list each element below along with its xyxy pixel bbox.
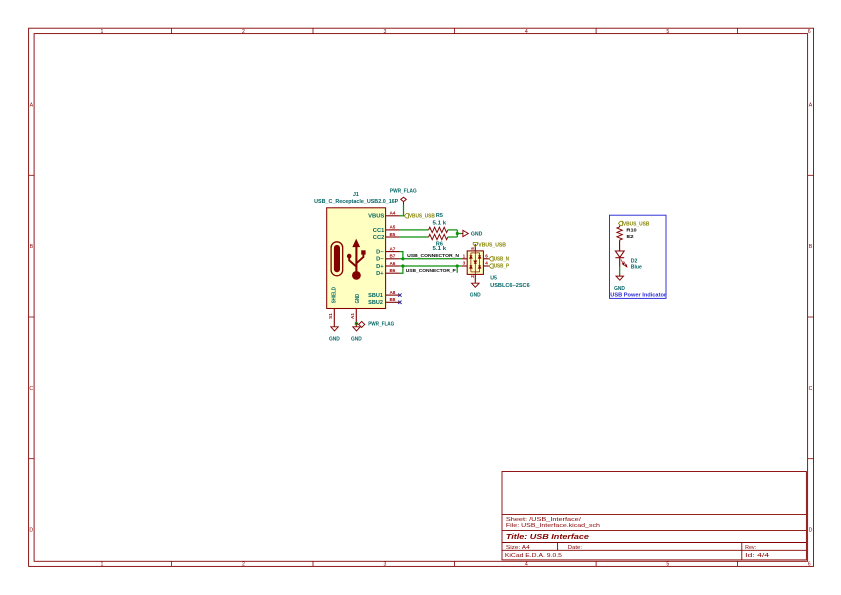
J1 pin B6 stub (386, 272, 400, 274)
svg-text:6: 6 (808, 29, 811, 35)
frame column ticks top (172, 28, 738, 33)
svg-text:2: 2 (470, 275, 475, 278)
svg-text:B7: B7 (389, 254, 395, 259)
svg-text:1: 1 (101, 29, 104, 35)
svg-text:B6: B6 (389, 268, 395, 273)
svg-text:1: 1 (463, 253, 466, 258)
svg-text:2: 2 (242, 29, 245, 35)
U5 pin 4 (483, 265, 489, 267)
J1 pin S1 stub (shield, vertical) (333, 309, 335, 327)
title block (502, 472, 806, 560)
J1 pin A1 stub (gnd, vertical) (355, 309, 357, 327)
ground symbol under U5 (474, 282, 476, 284)
svg-text:VBUS_USB: VBUS_USB (623, 221, 650, 227)
wire CC1 to R5 (400, 229, 429, 231)
wire USB_CONNECTOR_P (400, 265, 462, 267)
svg-text:C: C (29, 386, 33, 392)
svg-text:3: 3 (463, 261, 466, 266)
U5 pin 3 (462, 265, 468, 267)
LED D2 (615, 251, 624, 257)
U5 pin 2 (bottom) (474, 274, 476, 281)
hierarchical label VBUS_USB at J1 (404, 214, 408, 218)
svg-text:VBUS_USB: VBUS_USB (409, 214, 435, 220)
svg-text:VBUS: VBUS (368, 214, 385, 220)
resistor R6 (429, 234, 448, 239)
no-connect X on SBU2 (398, 301, 401, 304)
frame column numbers bottom (101, 562, 811, 568)
svg-text:U5: U5 (490, 276, 497, 282)
frame column numbers top (101, 29, 811, 35)
hierarchical label USB_P (489, 264, 493, 268)
ground symbol in indicator (619, 275, 621, 277)
wire label to R10 (619, 226, 621, 227)
J1 pin B7 stub (386, 258, 400, 260)
USB power indicator group box (610, 215, 667, 298)
svg-text:D: D (809, 528, 813, 534)
wire D+ B6 rise (400, 266, 403, 273)
svg-text:1: 1 (101, 562, 104, 568)
svg-text:D: D (29, 528, 33, 534)
wire CC2 to R6 (400, 236, 429, 238)
svg-text:SBU1: SBU1 (368, 293, 383, 299)
svg-text:D−: D− (376, 257, 383, 263)
J1 pin A8 stub (386, 294, 400, 296)
svg-text:CC1: CC1 (373, 228, 385, 234)
svg-text:D2: D2 (631, 258, 638, 264)
svg-text:SBU2: SBU2 (368, 300, 383, 306)
connector J1 body (327, 208, 386, 309)
svg-text:A1: A1 (350, 313, 355, 319)
svg-text:GND: GND (351, 337, 362, 343)
svg-text:USB_CONNECTOR_N: USB_CONNECTOR_N (407, 253, 459, 259)
svg-text:USB_N: USB_N (494, 257, 510, 263)
svg-text:USB_P: USB_P (494, 264, 510, 270)
svg-text:6: 6 (485, 253, 488, 258)
junction D+ (401, 264, 404, 267)
U5 internal diode network (470, 251, 481, 275)
svg-text:5.1 k: 5.1 k (433, 246, 447, 252)
svg-text:4: 4 (525, 562, 528, 568)
frame row letters left (29, 102, 33, 533)
svg-text:A8: A8 (389, 290, 395, 295)
svg-text:GND: GND (470, 293, 481, 299)
svg-text:D+: D+ (376, 271, 383, 277)
J1 usb-c receptacle glyph inner (334, 245, 340, 272)
hierarchical label VBUS_USB in indicator (618, 221, 622, 225)
svg-text:2: 2 (242, 562, 245, 568)
hierarchical label USB_N (489, 257, 493, 261)
svg-text:USB_C_Receptacle_USB2.0_16P: USB_C_Receptacle_USB2.0_16P (314, 199, 399, 205)
wire junction to GND symbol (457, 233, 461, 235)
svg-text:Id: 4/4: Id: 4/4 (745, 553, 769, 559)
svg-text:USB_CONNECTOR_P: USB_CONNECTOR_P (406, 268, 457, 274)
J1 usb-c receptacle glyph outer (331, 242, 343, 276)
frame row ticks right (808, 175, 814, 458)
svg-text:GND: GND (614, 286, 625, 292)
svg-text:5: 5 (470, 247, 475, 250)
svg-text:5: 5 (666, 562, 669, 568)
svg-text:Size: A4: Size: A4 (506, 545, 530, 551)
ground symbol at CC resistors (pointing right) (461, 233, 463, 235)
power flag PWR_FLAG at A1 (359, 321, 365, 327)
wire joining R5/R6 outputs (456, 230, 458, 237)
svg-text:D−: D− (376, 250, 383, 256)
J1 pin B5 stub (386, 236, 400, 238)
svg-text:PWR_FLAG: PWR_FLAG (390, 188, 417, 194)
ground symbol under S1 (331, 327, 339, 331)
svg-text:3: 3 (383, 562, 386, 568)
svg-text:5: 5 (666, 29, 669, 35)
ground symbol under A1 (353, 327, 361, 331)
svg-text:A5: A5 (389, 225, 395, 230)
frame row ticks left (29, 175, 34, 458)
svg-text:A7: A7 (389, 246, 395, 251)
svg-text:A: A (30, 102, 34, 108)
wire D- A7 drop (400, 252, 403, 259)
svg-text:VBUS_USB: VBUS_USB (478, 242, 506, 248)
U5 pin 1 (462, 258, 468, 260)
hierarchical label VBUS_USB at U5 (473, 242, 477, 246)
wire R6 to gnd node (448, 236, 458, 238)
svg-text:R5: R5 (436, 213, 443, 219)
svg-text:B: B (809, 244, 813, 250)
svg-text:A4: A4 (389, 211, 395, 216)
svg-text:S1: S1 (328, 313, 333, 319)
resistor R5 (429, 227, 448, 232)
junction P net stub (456, 264, 459, 267)
wire R5 to gnd node (448, 229, 458, 231)
svg-text:B5: B5 (389, 232, 395, 237)
wire USB_CONNECTOR_N (400, 258, 462, 260)
svg-text:SHIELD: SHIELD (332, 287, 338, 303)
wire to ground (619, 267, 621, 275)
J1 usb trident left branch (349, 258, 356, 267)
junction D- (401, 257, 404, 260)
J1 usb trident stem (355, 247, 357, 273)
U5 pin 5 (top) (474, 244, 476, 251)
LED D2 emission arrows (621, 260, 627, 268)
svg-text:Title: USB Interface: Title: USB Interface (506, 532, 589, 541)
svg-text:A6: A6 (389, 261, 395, 266)
svg-text:USBLC6−2SC6: USBLC6−2SC6 (490, 283, 530, 289)
wire VBUS pin to label (400, 215, 404, 217)
svg-text:82: 82 (626, 234, 634, 240)
svg-text:B: B (30, 244, 34, 250)
J1 pin A5 stub (386, 229, 400, 231)
svg-text:B8: B8 (389, 297, 395, 302)
wire R10 to LED (619, 240, 621, 251)
junction R5/R6 gnd node (456, 232, 459, 235)
no-connect X on SBU1 (398, 293, 401, 296)
svg-text:4: 4 (485, 261, 488, 266)
J1 usb trident arrow (352, 239, 360, 248)
resistor R10 (vertical) (617, 227, 622, 240)
J1 usb trident right branch (356, 254, 363, 263)
J1 pin A4 stub (386, 215, 400, 217)
svg-text:KiCad E.D.A. 9.0.5: KiCad E.D.A. 9.0.5 (505, 553, 562, 559)
J1 pin B8 stub (386, 301, 400, 303)
wire PWR_FLAG to VBUS net (403, 205, 405, 216)
frame column ticks bottom (172, 561, 738, 566)
J1 usb trident bottom circle (352, 271, 361, 280)
svg-text:Rev:: Rev: (745, 545, 756, 551)
J1 pin A6 stub (386, 265, 400, 267)
ESD protection U5 body (467, 251, 483, 275)
svg-text:D+: D+ (376, 264, 383, 270)
wire LED cathode (619, 258, 621, 267)
U5 pin 6 (483, 258, 489, 260)
svg-text:6: 6 (808, 562, 811, 568)
svg-text:Blue: Blue (631, 264, 642, 270)
svg-text:J1: J1 (353, 192, 359, 198)
junction on A1 net (355, 322, 358, 325)
svg-text:C: C (809, 386, 813, 392)
svg-text:Date:: Date: (568, 545, 583, 551)
svg-text:PWR_FLAG: PWR_FLAG (368, 322, 394, 328)
svg-text:GND: GND (355, 294, 361, 304)
J1 pin A7 stub (386, 251, 400, 253)
svg-text:A: A (809, 102, 813, 108)
svg-text:USB Power Indicator: USB Power Indicator (610, 292, 667, 298)
wire stub at 457 on P net (456, 266, 458, 273)
svg-text:GND: GND (471, 231, 483, 237)
svg-text:CC2: CC2 (373, 235, 385, 241)
svg-text:GND: GND (329, 337, 340, 343)
svg-text:File: USB_Interface.kicad_sch: File: USB_Interface.kicad_sch (506, 523, 600, 529)
svg-text:R10: R10 (626, 228, 637, 234)
svg-text:4: 4 (525, 29, 528, 35)
frame row letters right (809, 102, 813, 533)
svg-text:3: 3 (383, 29, 386, 35)
svg-text:5.1 k: 5.1 k (433, 221, 447, 227)
